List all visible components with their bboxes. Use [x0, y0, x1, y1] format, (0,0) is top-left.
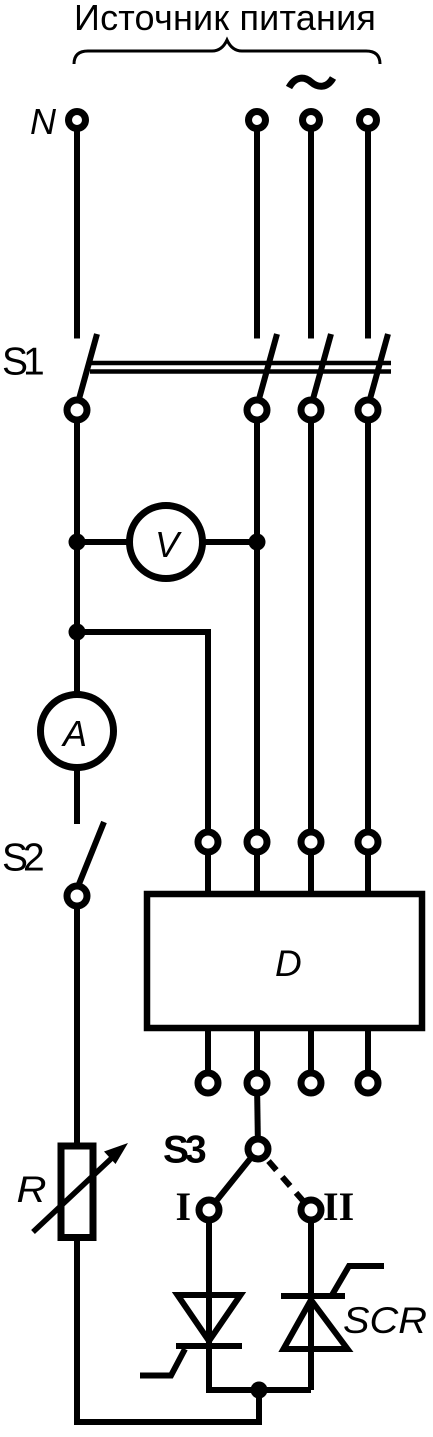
junction dot N branch	[69, 624, 86, 641]
rheostat R body	[61, 1146, 93, 1238]
AC tilde symbol	[289, 78, 333, 88]
svg-text:II: II	[323, 1184, 354, 1229]
terminal N	[69, 112, 86, 129]
D output terminal 1	[198, 1073, 218, 1093]
wire S2 to R to bottom corner to rail drop	[77, 896, 259, 1422]
rectifier D box	[147, 894, 422, 1028]
D input terminal 2	[247, 832, 267, 852]
rheostat R arrowhead	[104, 1143, 128, 1164]
terminal L1	[249, 112, 266, 129]
thyristor T2 gate lead	[332, 1266, 384, 1295]
wire phase L3 top	[365, 120, 371, 339]
svg-text:V: V	[155, 524, 182, 565]
junction dot voltmeter left	[69, 534, 86, 551]
svg-text:I: I	[176, 1184, 192, 1229]
wire D output 2 to S3 common	[257, 1083, 258, 1149]
D output terminal 3	[301, 1073, 321, 1093]
D input terminal 1	[198, 832, 218, 852]
wire junction to D input 1 (corner)	[77, 632, 208, 842]
brace under title	[74, 40, 380, 64]
junction dot bottom rail	[251, 1382, 268, 1399]
svg-text:A: A	[61, 713, 87, 754]
terminal L3	[360, 112, 377, 129]
thyristor T1 triangle (arrow down)	[178, 1295, 241, 1341]
wire N column top	[74, 120, 80, 339]
switch S3 common contact	[248, 1139, 268, 1159]
svg-text:S1: S1	[2, 341, 43, 384]
switch S1 contact pole 2	[247, 400, 267, 420]
rheostat R arrow shaft	[33, 1156, 114, 1232]
wire D output stubs	[205, 1026, 211, 1083]
D input terminal 4	[358, 832, 378, 852]
switch S3 contact I	[199, 1200, 219, 1220]
junction dot voltmeter right	[249, 534, 266, 551]
wire D input stubs	[205, 842, 211, 897]
D input terminal 3	[301, 832, 321, 852]
svg-text:R: R	[17, 1169, 47, 1210]
svg-text:N: N	[30, 101, 57, 142]
D output terminal 2	[247, 1073, 267, 1093]
wire I to thyristor T1 and down to rail	[206, 1210, 212, 1390]
switch S3 contact II	[301, 1200, 321, 1220]
svg-text:Источник питания: Источник питания	[74, 0, 376, 38]
wire N column S1 to junction 632	[74, 410, 80, 632]
wire L2 column S1 to D input	[308, 410, 314, 842]
svg-text:SCR: SCR	[343, 1300, 427, 1341]
switch S1 blade pole 4	[370, 334, 388, 399]
wire L1 column S1 to D input	[254, 410, 260, 842]
wire phase L2 top	[308, 120, 314, 339]
switch S1 blade pole 3	[313, 334, 331, 399]
svg-text:S2: S2	[2, 837, 43, 880]
wire L3 column S1 to D input	[365, 410, 371, 842]
thyristor T1 gate lead	[140, 1349, 185, 1376]
svg-text:S3: S3	[163, 1129, 206, 1172]
wire bottom rail between thyristors	[206, 1387, 311, 1393]
svg-text:D: D	[275, 943, 302, 984]
thyristor T2 cathode bar	[281, 1293, 345, 1299]
wire N column ammeter to S2	[74, 632, 80, 824]
switch S2 contact	[67, 886, 87, 906]
ammeter A circle	[41, 695, 114, 768]
switch S1 blade pole 2	[259, 334, 277, 399]
thyristor T1 cathode bar	[176, 1343, 242, 1349]
switch S2 blade	[79, 822, 104, 884]
thyristor T2 triangle (arrow up)	[284, 1300, 348, 1349]
switch S1 contact pole 3	[301, 400, 321, 420]
wire II to thyristor T2 and down to rail	[308, 1210, 314, 1390]
switch S1 blade pole 1	[79, 334, 97, 399]
switch S3 blade solid to I	[209, 1149, 258, 1210]
voltmeter V circle	[130, 506, 203, 579]
switch S1 contact pole 4	[358, 400, 378, 420]
terminal L2	[303, 112, 320, 129]
wire phase L1 top	[254, 120, 260, 339]
D output terminal 4	[358, 1073, 378, 1093]
switch S3 blade dashed to II	[258, 1149, 311, 1210]
switch S1 contact pole 1	[67, 400, 87, 420]
wire voltmeter horizontal	[77, 539, 257, 545]
switch S1 mechanical linkage double bar	[90, 363, 391, 372]
